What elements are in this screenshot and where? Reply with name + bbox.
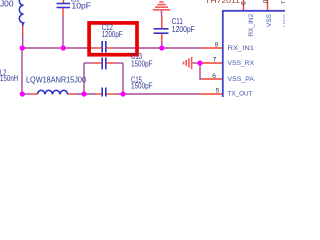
svg-text:9: 9 xyxy=(239,1,246,5)
svg-text:TX_OUT: TX_OUT xyxy=(228,90,253,97)
svg-text:VSS: VSS xyxy=(266,14,273,27)
svg-text:LQW18ANR15J00: LQW18ANR15J00 xyxy=(26,75,87,84)
svg-text:RX_IN2: RX_IN2 xyxy=(248,14,255,37)
svg-text:150nH: 150nH xyxy=(0,74,19,83)
svg-text:10: 10 xyxy=(261,0,268,4)
svg-text:TH72011: TH72011 xyxy=(205,0,240,5)
svg-text:C10: C10 xyxy=(71,0,80,4)
svg-text:VSS_RX: VSS_RX xyxy=(228,60,255,67)
svg-text:1200pF: 1200pF xyxy=(172,25,195,34)
svg-text:J00: J00 xyxy=(0,0,14,8)
svg-text:5: 5 xyxy=(216,88,220,95)
svg-text:1200pF: 1200pF xyxy=(102,30,123,39)
svg-text:8: 8 xyxy=(215,41,219,48)
svg-text:VSS_PA: VSS_PA xyxy=(228,76,255,83)
svg-text:VSS: VSS xyxy=(283,14,285,27)
svg-text:1500pF: 1500pF xyxy=(131,60,153,69)
svg-text:1: 1 xyxy=(280,1,286,5)
svg-text:6: 6 xyxy=(212,73,216,80)
svg-text:RX_IN1: RX_IN1 xyxy=(228,45,255,52)
svg-text:7: 7 xyxy=(213,56,217,63)
svg-text:1500pF: 1500pF xyxy=(131,82,153,91)
